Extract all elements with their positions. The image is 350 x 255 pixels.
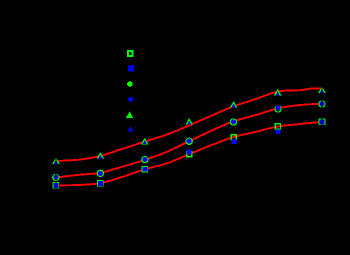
legend: blue filled circle (128, 97, 133, 102)
legend: green open square (128, 51, 133, 56)
red fitted curve (bottom, square series) (56, 122, 322, 186)
blue filled square markers (54, 120, 325, 188)
red fitted curve (top, triangle series) (56, 88, 322, 161)
right axis spine (322, 30, 323, 220)
blue filled triangle markers (54, 89, 324, 164)
green open square markers (53, 119, 324, 188)
green open circle markers (53, 101, 325, 181)
legend: blue filled triangle (128, 126, 134, 131)
legend: green triangle (127, 112, 133, 117)
left axis spine (55, 30, 56, 220)
red fitted curve (middle, circle series) (56, 104, 322, 178)
legend: blue filled square (128, 66, 134, 72)
blue filled circle markers (53, 101, 324, 180)
green open triangle markers (53, 88, 324, 164)
legend: green circle (128, 82, 132, 86)
